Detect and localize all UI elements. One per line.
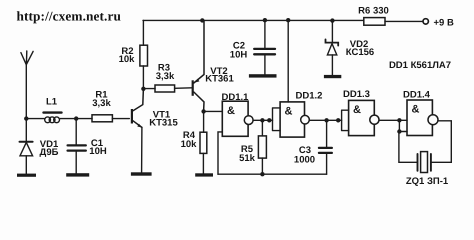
- svg-text:10k: 10k: [181, 139, 198, 150]
- svg-text:+9 В: +9 В: [434, 18, 454, 29]
- node K (DD1.4 input lower): [397, 129, 401, 133]
- resistor R3 3,3k: [143, 63, 191, 93]
- node E (DD1.1 out/R5): [260, 118, 264, 122]
- gate DD1.4: [399, 90, 438, 136]
- svg-text:KT361: KT361: [205, 74, 234, 85]
- wire feedback line: [218, 173, 327, 175]
- svg-text:KT315: KT315: [149, 118, 178, 129]
- watermark url text: [17, 8, 122, 23]
- ground (under C2): [249, 74, 277, 77]
- node rail/VD2: [330, 18, 334, 22]
- wire: [60, 118, 92, 120]
- node rail/VT2 emitter: [200, 18, 204, 22]
- wire DD1.1 output: [253, 119, 272, 121]
- node F (DD1.2 input bracket): [267, 118, 271, 122]
- capacitor C2 10H: [230, 20, 275, 74]
- ground (under VT1 emitter): [131, 172, 152, 175]
- resistor R6 330: [358, 6, 423, 26]
- svg-text:10H: 10H: [89, 146, 107, 157]
- gate DD1.2: [273, 91, 323, 138]
- node D (VT2 collector/R4/DD1.1): [201, 109, 205, 113]
- resistor R4 10k: [181, 111, 207, 173]
- svg-text:&: &: [285, 106, 293, 118]
- node rail/C2: [263, 18, 267, 22]
- svg-text:ZQ1 ЗП-1: ZQ1 ЗП-1: [406, 176, 449, 187]
- wire DD1.1 lower input feedback stub: [218, 132, 222, 174]
- ground (under VD1): [17, 174, 36, 177]
- gate DD1.3: [342, 89, 379, 136]
- node C (R2/R3/VT1 collector): [141, 87, 145, 91]
- resistor R5 51k: [239, 120, 266, 174]
- svg-text:DD1.2: DD1.2: [296, 91, 323, 102]
- svg-text:DD1.3: DD1.3: [343, 89, 370, 100]
- piezo ZQ1 ЗП-1: [399, 132, 449, 188]
- node rail/DD1.2 power stub: [286, 18, 290, 22]
- svg-text:Д9Б: Д9Б: [40, 147, 59, 158]
- capacitor C1 10H: [68, 119, 107, 174]
- svg-text:51k: 51k: [239, 153, 256, 164]
- top +9V rail wire: [143, 19, 364, 21]
- node B (L1/R1/C1 junction): [74, 116, 78, 120]
- svg-text:1000: 1000: [294, 155, 315, 166]
- node H (C3 tap): [324, 118, 328, 122]
- node G (R5 bottom on feedback line): [260, 172, 264, 176]
- resistor R1 3,3k: [92, 90, 129, 122]
- node J (DD1.4 input upper): [397, 118, 401, 122]
- transistor VT2 KT361: [192, 20, 235, 111]
- gate DD1.1: [222, 92, 254, 136]
- svg-text:3,3k: 3,3k: [92, 98, 111, 109]
- svg-text:R6 330: R6 330: [358, 6, 389, 17]
- diode VD1 Д9Б: [20, 119, 59, 174]
- antenna W1: [21, 51, 33, 119]
- svg-text:DD1.1: DD1.1: [222, 92, 250, 103]
- node I (DD1.3 bracket): [336, 118, 340, 122]
- wire DD1.3 output: [379, 119, 399, 121]
- IC label DD1 К561ЛА7: [389, 60, 451, 71]
- wire DD1.2 power stub: [287, 20, 289, 102]
- svg-text:&: &: [353, 104, 361, 116]
- svg-text:&: &: [227, 105, 235, 117]
- resistor R2 10k: [119, 20, 148, 88]
- transistor VT1 KT315: [131, 89, 179, 173]
- node A (antenna/L1/VD1 junction): [24, 116, 28, 120]
- wire DD1.2 output: [309, 119, 341, 121]
- svg-text:DD1.4: DD1.4: [403, 90, 431, 101]
- ground (under R4): [195, 173, 213, 176]
- svg-text:10H: 10H: [230, 50, 248, 61]
- svg-text:DD1 К561ЛА7: DD1 К561ЛА7: [389, 60, 451, 71]
- zener VD2 КС156: [326, 21, 375, 75]
- svg-text:http://cxem.net.ru: http://cxem.net.ru: [17, 8, 122, 23]
- inductor L1: [44, 97, 62, 123]
- svg-text:КС156: КС156: [346, 47, 374, 58]
- terminal +9 V: [423, 18, 454, 29]
- capacitor C3 1000: [294, 120, 332, 174]
- wire VT2 collector to DD1.1 input: [204, 110, 223, 112]
- ground (under VD2): [324, 75, 341, 78]
- ground (under C1): [66, 173, 89, 176]
- svg-text:&: &: [412, 104, 420, 116]
- wire: [26, 118, 44, 120]
- wire DD1.4 output loop: [431, 121, 451, 163]
- svg-text:3,3k: 3,3k: [156, 71, 175, 82]
- svg-text:L1: L1: [46, 97, 58, 108]
- svg-text:10k: 10k: [119, 54, 136, 65]
